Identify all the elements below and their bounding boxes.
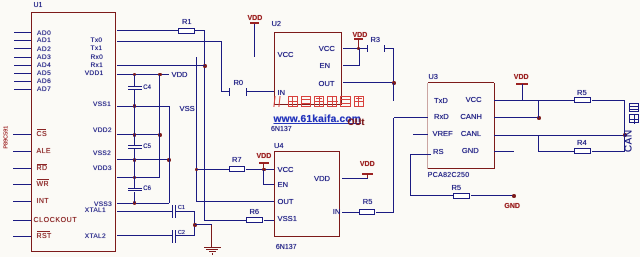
label C4 xyxy=(143,85,151,92)
junction VSS2/C5 xyxy=(133,158,137,162)
pin label WR xyxy=(37,181,49,189)
resistor R4 xyxy=(539,151,574,152)
wire CAN bus xyxy=(624,101,625,152)
pin label RS xyxy=(433,148,444,157)
wire RST stub xyxy=(13,236,31,237)
pin label VSS1 U4 xyxy=(278,215,297,224)
label 6N137 (U2) xyxy=(271,126,292,134)
wire ALE stub xyxy=(13,151,31,152)
capacitor C2 xyxy=(172,230,173,243)
pin label VSS3 xyxy=(94,201,112,209)
ground GND label xyxy=(504,203,520,211)
junction CANH xyxy=(537,116,541,120)
wire AD1 stub xyxy=(14,40,31,41)
wire U3 VCC / R5 line xyxy=(494,100,574,101)
wire RxD riser xyxy=(393,118,394,213)
pin label VCC left U2 xyxy=(278,51,294,60)
wire AD0 stub xyxy=(14,32,31,33)
junction VSS3/C6 xyxy=(133,201,137,205)
junction OUT riser / R7 xyxy=(195,168,199,172)
wire VDD3 xyxy=(117,177,160,178)
pin label AD7 xyxy=(37,86,51,94)
resistor R0 (jumper style) xyxy=(222,91,230,92)
IC U2 optocoupler 6N137 box xyxy=(274,32,342,105)
pin label Tx0 xyxy=(91,37,103,45)
net label VSS xyxy=(180,105,195,114)
power VDD (above R3) xyxy=(353,32,368,40)
resistor R5 xyxy=(359,209,375,215)
wire VDD rail xyxy=(159,75,160,178)
label U3 xyxy=(428,73,438,82)
label CAN bus xyxy=(623,126,635,156)
wire CLOCKOUT stub xyxy=(13,220,31,221)
junction Rx1/R1 xyxy=(203,64,207,68)
power VDD (U3) xyxy=(514,74,529,82)
label U4 xyxy=(274,142,284,151)
pin label IN U2 xyxy=(278,89,286,98)
pin label Rx1 xyxy=(91,62,104,70)
junction VSS2/VSS rail xyxy=(167,158,171,162)
wire AD7 stub xyxy=(14,89,31,90)
wire AD4 stub xyxy=(14,65,31,66)
pin label GND U3 xyxy=(462,147,479,156)
ground xyxy=(204,247,221,248)
label C2 xyxy=(178,230,185,236)
IC U4 optocoupler 6N137 box xyxy=(274,151,341,237)
pin label Rx0 xyxy=(91,54,104,62)
label C5 xyxy=(143,144,151,151)
wire AD3 stub xyxy=(14,57,31,58)
wire U2 OUT xyxy=(343,82,394,83)
pin label AD6 xyxy=(37,78,51,86)
pin label CANL xyxy=(461,130,481,139)
wire U2 EN tie xyxy=(343,65,360,66)
junction R7/VDD/EN xyxy=(262,168,266,172)
wire cap rail VSS1-VDD2 xyxy=(134,106,135,135)
wire VREF stub xyxy=(413,134,428,135)
wire VSS rail xyxy=(169,106,170,203)
wire R1 output xyxy=(195,30,205,31)
label P89C591 xyxy=(3,124,9,151)
power VDD (U4 right) xyxy=(360,161,375,169)
wire Rx1 xyxy=(117,65,205,66)
junction caps/ground xyxy=(193,223,197,227)
wire C1 down xyxy=(194,211,195,225)
capacitor C1 xyxy=(172,205,173,218)
IC U3 transceiver PCA82C250 box (left edge faint in scan) xyxy=(427,83,428,169)
label 6N137 (U4) xyxy=(276,244,297,252)
wire OUT to U3 TxD xyxy=(393,83,394,101)
pin label AD5 xyxy=(37,70,51,78)
junction VDD3/C6 xyxy=(133,176,137,180)
wire GND stub xyxy=(494,151,513,152)
pin label VSS1 xyxy=(93,101,111,109)
junction CANL/bus xyxy=(623,133,627,137)
resistor R8 (slope) xyxy=(410,195,453,196)
pin label CS xyxy=(37,131,48,139)
label R3 xyxy=(371,36,381,45)
junction VDD2/C5 xyxy=(133,133,137,137)
resistor R1 xyxy=(178,28,194,34)
pin label ALE xyxy=(37,148,51,156)
wire RD stub xyxy=(13,168,31,169)
power VDD (U4 VCC) xyxy=(257,153,272,161)
label R1 xyxy=(182,18,192,27)
wire U4 EN tie xyxy=(263,170,264,185)
wire CANH to R5 xyxy=(538,101,539,118)
capacitor C4 xyxy=(134,75,135,87)
pin label VDD3 xyxy=(93,165,112,173)
pin label VCC right U2 xyxy=(319,45,335,54)
pin label EN U2 xyxy=(320,62,331,71)
wire cap rail VSS2-VDD3 xyxy=(134,160,135,178)
wire CANL xyxy=(494,135,625,136)
pin label IN U4 xyxy=(333,208,341,217)
pin label VCC U3 xyxy=(466,96,482,105)
capacitor C6 xyxy=(134,178,135,188)
pin label AD3 xyxy=(37,54,51,62)
wire VDD2 xyxy=(117,134,160,135)
pin label VDD1 xyxy=(85,70,104,78)
pin label OUT U2 xyxy=(319,80,335,89)
wire vertical R1/Rx1 to R6 xyxy=(204,31,205,221)
label C1 xyxy=(178,205,185,211)
resistor R5 bus xyxy=(574,97,591,103)
pin label VDD U4 xyxy=(314,175,330,184)
pin label AD1 xyxy=(37,37,51,45)
wire U4 OUT xyxy=(197,201,274,202)
wire INT stub xyxy=(13,201,31,202)
junction VDD/VCC/EN xyxy=(357,47,361,51)
pin label AD0 xyxy=(37,30,51,38)
wire RS xyxy=(410,154,430,155)
wire Tx0 xyxy=(117,30,178,31)
wire OUT riser xyxy=(196,57,197,202)
pin label AD2 xyxy=(37,46,51,54)
pin label XTAL2 xyxy=(85,233,106,241)
wire AD6 stub xyxy=(14,81,31,82)
resistor R7 xyxy=(197,169,230,170)
wire XTAL2 xyxy=(117,235,173,236)
pin label VCC U4 xyxy=(278,166,294,175)
watermark red site name (pseudo-glyphs for CJK) xyxy=(273,96,280,107)
label PCA82C250 xyxy=(428,172,470,180)
junction OUT/R3 xyxy=(392,81,396,85)
label R0 xyxy=(234,79,244,88)
junction VDD2/rail xyxy=(158,133,162,137)
wire CS stub xyxy=(13,134,31,135)
pin label Tx1 xyxy=(91,45,103,53)
net label VDD xyxy=(172,71,188,80)
wire AD5 stub xyxy=(14,73,31,74)
pin label EN U4 xyxy=(278,181,289,190)
resistor R3 (jumper style) xyxy=(367,45,368,53)
pin label CANH xyxy=(460,113,482,122)
wire to ground xyxy=(195,224,212,225)
wire R3 to OUT xyxy=(384,48,393,49)
pin label OUT U4 xyxy=(278,198,294,207)
pin label RST xyxy=(37,233,52,241)
pin label RxD xyxy=(434,113,449,122)
wire AD2 stub xyxy=(14,48,31,49)
junction VDD1/rail xyxy=(158,73,162,77)
pin label XTAL1 xyxy=(85,207,106,215)
junction GND net xyxy=(512,194,516,198)
wire U2 VCC xyxy=(343,48,368,49)
pin label INT xyxy=(37,198,49,206)
wire U4 VDD xyxy=(342,178,368,179)
wire R6 line xyxy=(205,220,247,221)
wire VDD1 xyxy=(117,74,168,75)
pin label TxD xyxy=(434,97,448,106)
wire VSS2 xyxy=(117,159,169,160)
watermark OUT fragment xyxy=(348,117,365,127)
wire CANL to R4 xyxy=(538,135,539,151)
wire XTAL1 xyxy=(117,211,173,212)
capacitor C5 xyxy=(134,135,135,146)
wire VSS1 xyxy=(117,106,169,107)
pin label CLOCKOUT xyxy=(34,217,78,225)
watermark url xyxy=(274,114,362,126)
pin label VDD2 xyxy=(93,127,112,135)
pin label RD xyxy=(37,165,48,173)
wire CANH xyxy=(494,117,539,118)
label C6 xyxy=(143,186,151,193)
wire RxD xyxy=(394,117,428,118)
wire U4 IN xyxy=(342,212,360,213)
IC U1 (MCU P89C591) box xyxy=(31,12,117,253)
wire WR stub xyxy=(13,184,31,185)
label U1 xyxy=(34,2,43,10)
wire C2 up xyxy=(194,225,195,236)
label U2 xyxy=(272,20,282,29)
wire Tx1 drop to R0 xyxy=(221,41,222,92)
pin label AD4 xyxy=(37,62,51,70)
junction VSS1/C4 xyxy=(133,104,137,108)
junction VDD1/C4 xyxy=(133,73,137,77)
power VDD (U2 input side) xyxy=(248,15,263,23)
pin label VREF xyxy=(433,130,453,139)
wire VSS3 xyxy=(117,203,169,204)
wire Tx1 xyxy=(117,41,221,42)
pin label VSS2 xyxy=(93,150,111,158)
resistor R6 xyxy=(246,217,263,223)
